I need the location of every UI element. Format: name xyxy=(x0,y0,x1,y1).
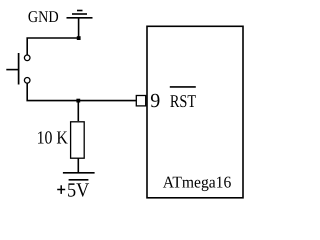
pushbutton S1: plunger xyxy=(6,69,18,71)
svg-text:RST: RST xyxy=(170,91,196,111)
node junction at resistor top xyxy=(76,99,80,103)
+5V power symbol xyxy=(63,173,95,180)
IC U1 ATmega16 body xyxy=(147,26,243,198)
wire: resistor bottom lead xyxy=(77,158,79,173)
wire: top horizontal from button to ground stem xyxy=(27,38,78,55)
wire: from button bottom terminal down and right to pin 9 xyxy=(27,83,136,101)
RST overline xyxy=(170,86,196,88)
wire: resistor top lead xyxy=(77,101,79,121)
svg-text:GND: GND xyxy=(28,7,59,26)
svg-text:ATmega16: ATmega16 xyxy=(163,172,232,191)
label +5V xyxy=(57,185,65,194)
pushbutton S1: bottom terminal circle xyxy=(24,78,30,84)
svg-text:10 K: 10 K xyxy=(37,127,69,147)
resistor R1 10K body xyxy=(71,122,85,158)
pushbutton S1: actuator bar xyxy=(18,53,20,85)
pin 9 box xyxy=(136,96,145,106)
svg-text:5V: 5V xyxy=(67,180,90,202)
node junction at ground stem xyxy=(77,36,81,40)
ground symbol xyxy=(67,11,93,39)
pushbutton S1: top terminal circle xyxy=(24,55,30,61)
svg-text:9: 9 xyxy=(150,90,160,112)
